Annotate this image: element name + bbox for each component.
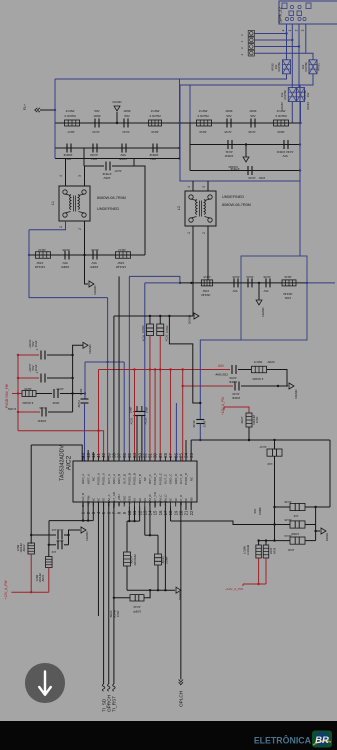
resistor AR16 1/6W 18OHM [282,280,296,286]
capacitor AC54 10NF [84,362,86,399]
capacitor AC40 1UF [49,544,56,546]
ground DGND right block [245,145,247,158]
resistor AR18 1/10W 3.3OHM [149,120,162,126]
right block row A wire [180,122,300,124]
capacitor AC22 100NF [152,144,154,153]
blue feedback wire OUT_C pin35 [128,276,130,461]
ground DGND right cluster [315,507,317,541]
capacitor AC29 100NF 50V [92,144,94,153]
capacitor AC32 100NF 50V [283,140,285,149]
wire pin27 red [170,370,172,462]
capacitor AC28 470NF 100V [247,166,249,175]
wire AR30 to left block top rail [55,74,287,79]
resistor AR21 10OHM 1/4W [48,545,50,557]
capacitor AC45 100NF [275,524,291,526]
capacitor AC55 10NF [53,389,55,398]
resistor AR20 1/10W 3.3OHM [274,120,289,126]
capacitor AC48 100NF row [183,385,233,387]
wire pins 21,22 stubs [185,502,187,510]
capacitor AC59 100NF [231,365,233,374]
svg-text:BR: BR [315,735,329,746]
wire snubber to right edge [307,282,335,284]
red bus AS5V [99,369,231,371]
resistor AR15 1/6W 18OHM [201,280,212,286]
connector J2 (SPK) body [279,1,337,24]
black column AC60-AC56 [72,355,74,412]
L1 secondary wires [29,221,66,230]
svg-text:ELETRÔNICA: ELETRÔNICA [254,735,312,746]
blue line to pins 44,36 [85,361,124,363]
left block row C wire [55,158,180,160]
capacitor AC49 33NF [196,419,204,421]
resistor AR14 1/6W 18OHM [116,252,131,259]
ground DGND center [194,313,199,319]
capacitor AC29b 330PF [233,278,235,287]
capacitor AC56 100NF [18,411,40,413]
wire AR31 to right block top rail [180,74,313,85]
left block right rail [179,79,181,159]
wire pin34 red [134,370,136,462]
resistor AR25 1/10W 3.3OHM [258,541,260,545]
capacitor AC34 10NF 50V [123,119,125,128]
capacitor AC35 10NF 50V [226,119,228,128]
wire right block to snubber box [299,181,301,256]
capacitor AC38 100NF [159,316,161,324]
wire pin44 loop [31,445,82,461]
wires pins 10,11,12 ladder [128,507,130,522]
far right rail down [329,440,331,507]
capacitor AC33 50V 10NF [94,119,96,128]
wire pin38 black from DGND line [113,316,115,461]
capacitor AC36 10NF 50V [250,119,252,128]
wires pins 13,14 ladder [144,507,146,536]
ground DGND left block [116,112,118,123]
red wire AR21 to +12V [48,568,50,593]
capacitor AC46 1UF [275,506,291,508]
blue wire box bottom to AC49 [200,340,241,419]
wire pin30 red [154,370,156,462]
capacitor AC57 10UF 50V [18,377,39,379]
right block row B wire [190,144,300,146]
resistor AR32 1W 0OHM [288,88,296,102]
resistor AR22 10OHM 1/4W [30,535,32,544]
capacitor AC41 1UF [57,531,59,540]
row D wire [29,254,145,256]
inductor L1 [59,186,90,221]
logo BR flag block [312,731,332,748]
wire pin42 stub [92,452,94,461]
wire pin43 stub [87,450,89,461]
wire row D right end up [134,166,145,255]
DGND collector wire [114,315,193,317]
capacitor AC24 330PF 50V [265,278,267,287]
capacitor AC37 100NF [149,316,151,324]
left block row B wire [55,147,180,149]
capacitor AC31 100NF 50V [227,140,229,149]
capacitor AC51 10NF [136,406,138,411]
resistor AR29 3.3OHM 1/10W [252,366,267,373]
capacitor AC43 100NF [157,535,159,554]
capacitor AC52 10NF [141,406,143,411]
right block frame [180,85,300,181]
wire pin17 to DGND collector [164,507,166,591]
wires header to J2 [255,33,287,35]
resistor AR31 1W 0OHM [309,60,317,74]
capacitor AC27 470NF 100V [84,165,104,167]
resistor AR33 1W 0OHM [297,88,305,102]
blue feedback wire OUT_A [29,230,108,298]
ground DGND AC60 [73,345,83,355]
capacitor AC42 100PF [114,597,130,599]
download floating button [25,663,64,702]
left block row A wire [55,122,180,124]
wire pin37 black [118,276,120,461]
wire pin20 OPLCH [180,502,182,680]
capacitor AC44 10UF [259,540,290,542]
ground DGND snubber [258,283,260,300]
wire pin4 with AR23 labels [97,502,99,616]
bottom navigation bar [0,721,337,750]
capacitor AC30 100NF 50V [121,144,123,153]
inductor L2 [185,191,216,226]
red drop bus to AC48 row and pin25 [182,370,184,462]
red wires AR25 AR26 to +12V [258,558,260,584]
PVDD red rail [17,355,19,431]
ground DGND AC41 [69,530,81,535]
op-amp U1 IC TAS5342ADDV body [73,461,197,502]
resistor AR26 1/10W 3.3OHM [265,541,267,545]
4-pin header P1 [248,30,254,36]
capacitor AC23 330PF 50V [247,278,249,287]
resistor AR13 1/6W 18OHM [36,252,51,259]
wire pin24 stub [185,440,187,461]
resistor AR28 3.3OHM 1/10W [18,393,22,395]
resistor AR19 1/10W 3.3OHM [197,120,212,126]
wires to L2 primary [192,181,194,191]
wire pin18 to right cluster [170,507,172,522]
left block left rail [54,79,56,123]
capacitor AC47 1UF [274,440,276,449]
capacitor AC25 330PF 50V [64,251,66,260]
pin wires from J2 down [286,24,288,60]
red wire AR22 to +12V [30,554,32,592]
capacitor AC26 330PF 50V [92,251,94,260]
snubber row wire [180,282,307,284]
wires AR32 AR33 down [291,102,293,124]
capacitor AC21 100NF 50V [66,144,68,153]
ground DGND row D [85,255,89,284]
L2 secondary wires [192,226,194,316]
capacitor AC60 10UF 50V [18,354,39,356]
resistor AR24 22KOHM [126,521,128,552]
wire pin26 blue [175,403,177,461]
wire pin43 left vertical [30,445,32,535]
wire pin23 to AC47 rail [191,439,330,441]
resistor AR17 1/10W 3.3OHM [65,120,80,126]
wire DGND stair to AC49 node [169,316,200,403]
DGND collector below IC [127,589,175,591]
red +12V_A_PW rail bottom left [11,591,48,593]
down arrow icon [39,672,51,695]
blue feedback wire OUT_D pin32 [145,282,180,284]
ground DGND AC48 [289,383,294,389]
right block row C wire [190,170,300,172]
resistor AR27 10OHM 1/4W [246,413,252,427]
red rail bottom to pin40 [18,431,104,461]
wires to L1 primary pins [65,159,67,187]
wire pin23 [190,440,192,461]
wire AC41 row [30,534,32,536]
wires pins 5,6,7 long [103,502,105,684]
wire pin1 pin3 join [82,502,84,521]
resistor AR30 1W 0OHM [283,60,291,74]
snubber box frame [241,256,307,340]
